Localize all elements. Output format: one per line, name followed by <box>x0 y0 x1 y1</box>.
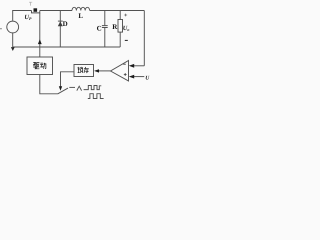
svg-text:+: + <box>124 13 128 19</box>
label V above transistor <box>29 2 32 5</box>
voltage source Us circle <box>7 21 19 33</box>
transistor V gate square <box>34 8 38 12</box>
switch right contact dash <box>69 86 75 88</box>
latch to sawtooth arrowhead <box>59 86 62 91</box>
diode D cathode bar <box>58 20 63 22</box>
resistor R top wire <box>119 11 121 20</box>
transistor V notch <box>32 11 40 13</box>
gate drive arrowhead <box>38 39 42 44</box>
svg-text:D: D <box>63 20 68 28</box>
drive box <box>27 57 53 75</box>
capacitor C plates <box>102 26 108 28</box>
wire top rail mid <box>40 10 72 12</box>
wire latch to sawtooth <box>61 72 75 87</box>
comparator minus sign <box>123 63 126 65</box>
wire right side down to comparator <box>143 11 145 66</box>
comparator output wire <box>98 70 110 72</box>
waveform sawtooth <box>77 86 82 90</box>
latch box <box>74 65 94 77</box>
svg-text:UP: UP <box>24 14 32 21</box>
resistor R body <box>118 20 123 33</box>
capacitor C branch top wire <box>104 11 106 26</box>
comparator inverting input wire <box>133 65 144 67</box>
label Us (cut at edge) <box>0 28 2 30</box>
comparator noninverting input arrowhead <box>129 75 134 79</box>
comparator noninverting input wire <box>133 76 144 78</box>
comparator output arrowhead <box>94 69 99 72</box>
capacitor C branch bottom wire <box>104 28 106 47</box>
waveform pulse train upper <box>84 86 102 90</box>
label minus output <box>125 39 128 41</box>
source current arrowhead <box>11 47 15 51</box>
comparator plus sign <box>124 73 127 76</box>
label latch (Chinese) <box>78 67 89 73</box>
wire top rail right <box>90 10 145 12</box>
wire gate drive line <box>39 13 41 57</box>
svg-text:Uo: Uo <box>123 25 130 32</box>
wire bottom rail <box>13 46 121 48</box>
wire top rail left <box>13 11 32 21</box>
svg-text:L: L <box>78 12 83 20</box>
comparator U1 triangle <box>111 61 129 82</box>
diode D triangle <box>58 21 63 26</box>
switch blade <box>58 88 68 94</box>
wire source bottom <box>12 33 14 47</box>
comparator inverting input arrowhead <box>129 64 134 68</box>
svg-text:C: C <box>97 24 102 32</box>
label drive (Chinese) <box>33 62 46 69</box>
diode D branch wire <box>59 11 61 48</box>
inductor L coil <box>72 7 90 10</box>
waveform pulse train lower <box>88 94 104 99</box>
wire drive box down <box>40 75 58 94</box>
resistor R bottom wire <box>119 32 121 47</box>
